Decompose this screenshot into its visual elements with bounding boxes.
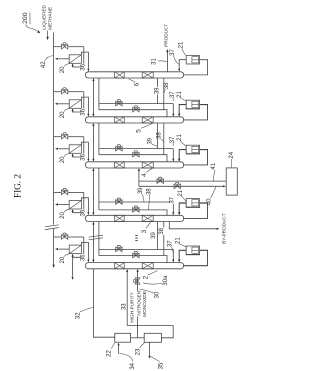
pump return line 37 into column, unit 1	[179, 60, 186, 69]
svg-text:30: 30	[154, 291, 160, 298]
svg-text:24: 24	[229, 151, 235, 158]
reflux line 36 into column top, unit 4	[81, 198, 88, 212]
svg-text:39: 39	[155, 87, 161, 94]
line 38	[163, 78, 165, 110]
svg-text:39: 39	[147, 137, 153, 144]
heat exchanger 20 (condenser) unit 1	[69, 55, 81, 64]
svg-text:36: 36	[80, 153, 86, 160]
line 39	[157, 123, 159, 149]
packing section	[115, 117, 125, 123]
svg-text:2: 2	[143, 275, 150, 279]
reflux line 36 into column top, unit 2	[81, 97, 88, 114]
methane vapour return line to 42, unit 4	[58, 204, 69, 206]
line 38	[163, 222, 165, 256]
upper bus line with valve	[99, 103, 173, 105]
pump 21 loop between columns	[179, 149, 186, 158]
svg-text:39: 39	[138, 187, 144, 194]
pump 21 loop between columns	[179, 250, 186, 259]
heat exchanger 20 (condenser) unit 4	[69, 201, 81, 210]
pump 21 loop between columns	[179, 203, 186, 212]
methane vapour return line to 42, unit 5	[58, 248, 69, 250]
lower bus line with valve	[99, 155, 167, 162]
svg-text:39: 39	[151, 232, 157, 239]
lower bus line with valve	[99, 110, 167, 117]
svg-text:LIQUEFIED: LIQUEFIED	[42, 4, 47, 29]
line 37 into lower column	[172, 149, 174, 161]
methane vapour return line to 42, unit 1	[58, 58, 69, 60]
label 21 gap4	[176, 237, 181, 244]
svg-text:20: 20	[60, 66, 66, 73]
svg-text:21: 21	[176, 237, 182, 244]
break mark on line 42	[45, 225, 59, 227]
lower bus line with valve	[99, 210, 167, 215]
connector between 22 and 23	[131, 337, 145, 339]
label 36 unit 1	[81, 64, 86, 71]
unit 2: methane branch line with valve	[54, 91, 62, 93]
svg-text:20: 20	[60, 256, 66, 263]
svg-text:6: 6	[134, 82, 141, 86]
label 37 gap1	[170, 91, 175, 98]
packing section	[115, 72, 125, 78]
svg-text:35: 35	[158, 362, 164, 369]
reflux line 36 into column top, unit 5	[81, 242, 88, 259]
label 3 (column)	[142, 230, 148, 234]
svg-text:20: 20	[60, 212, 66, 219]
line 37 into lower column	[172, 104, 174, 116]
svg-text:41: 41	[211, 162, 217, 169]
svg-text:36: 36	[80, 63, 86, 70]
vapour line between columns 4 and 3	[92, 169, 94, 215]
label 37 gap3	[170, 197, 175, 204]
svg-text:3: 3	[141, 229, 148, 233]
packing section	[142, 162, 153, 168]
svg-text:38: 38	[159, 227, 165, 234]
unit 1: methane branch line with valve	[54, 46, 62, 48]
unit 3: methane branch line with valve	[54, 136, 62, 138]
vapour line between columns 3 and 2	[92, 222, 94, 261]
svg-text:4: 4	[141, 173, 148, 177]
by-product line 40 with valve	[139, 185, 223, 187]
svg-text:37: 37	[170, 49, 176, 56]
feed inlet arrow	[47, 31, 49, 38]
vapour line between columns 5 and 4	[92, 124, 94, 161]
recycle line 30 with valve 30a	[137, 270, 139, 338]
distillation column 5 (vessel)	[85, 117, 184, 123]
distillation column 4 (vessel)	[85, 162, 184, 168]
liquid transfer line	[98, 78, 100, 110]
packing section	[115, 215, 125, 221]
svg-text:23: 23	[135, 348, 141, 355]
heat exchanger 20 (condenser) unit 3	[69, 145, 81, 154]
reflux pump 21 loop, unit 1	[183, 60, 208, 75]
unit 5: methane branch line with valve	[54, 236, 62, 238]
methane vapour return line to 42, unit 3	[58, 148, 69, 150]
label 21 gap3	[179, 190, 184, 197]
svg-text:38: 38	[157, 132, 163, 139]
product line 31	[166, 52, 168, 72]
distillation column 3 (vessel)	[85, 215, 184, 221]
unit 4: methane branch line with valve	[54, 191, 62, 193]
reflux pump 21 loop, unit 2	[183, 105, 208, 120]
svg-text:34: 34	[130, 362, 136, 369]
svg-text:22: 22	[107, 350, 113, 357]
label 37 gap2	[170, 136, 175, 143]
label 37 gap4	[168, 240, 173, 247]
liquid transfer line	[98, 123, 100, 155]
reflux pump 21 loop, unit 3	[183, 150, 208, 165]
svg-text:5: 5	[136, 129, 143, 133]
upper bus line with valve	[99, 201, 173, 203]
svg-text:38: 38	[147, 188, 153, 195]
svg-text:MONOXIDE: MONOXIDE	[142, 291, 147, 317]
label 36 unit 2	[81, 109, 86, 116]
svg-text:20: 20	[60, 111, 66, 118]
svg-text:32: 32	[75, 312, 81, 319]
line 32 to separator 22	[93, 269, 114, 337]
tank 24	[226, 168, 237, 195]
svg-text:37: 37	[168, 240, 174, 247]
svg-text:21: 21	[177, 134, 183, 141]
pump return line 37 into column, unit 3	[179, 150, 186, 159]
svg-text:FIG. 2: FIG. 2	[13, 174, 23, 198]
svg-text:38: 38	[164, 82, 170, 89]
svg-text:42: 42	[41, 61, 47, 68]
pump 21 loop between columns	[179, 104, 186, 113]
label 39 gap1	[155, 87, 160, 94]
liquid transfer line	[98, 222, 100, 256]
reflux line 36 into column top, unit 3	[81, 142, 88, 159]
svg-text:36: 36	[80, 209, 86, 216]
svg-text:33: 33	[122, 303, 128, 310]
label 36 unit 4	[81, 209, 86, 216]
svg-text:21: 21	[177, 91, 183, 98]
line 37 into lower column	[172, 202, 174, 214]
liquid transfer line	[98, 168, 100, 210]
label HIGH-PURITY NITROGEN MONOXIDE	[130, 290, 134, 323]
by-product outlet line	[169, 222, 216, 229]
line 39	[157, 222, 159, 250]
label 36 unit 3	[81, 154, 86, 161]
label 21 gap2	[178, 134, 183, 141]
line 33 riser with arrow	[126, 270, 128, 326]
svg-text:20: 20	[60, 156, 66, 163]
svg-text:37: 37	[170, 196, 176, 203]
upper bus line with valve	[99, 248, 173, 250]
lower bus line with valve	[99, 256, 167, 263]
reflux pump 21 loop, unit 4	[183, 203, 208, 218]
svg-text:PRODUCT: PRODUCT	[163, 24, 168, 47]
box 23	[144, 333, 161, 342]
outlet arrow 35	[149, 342, 151, 355]
by-product riser line	[138, 169, 140, 187]
ellipsis (omitted columns)	[135, 235, 137, 237]
methane vapour return line to 42, unit 2	[58, 103, 69, 105]
separator box 22	[115, 333, 131, 342]
svg-text:200: 200	[22, 12, 29, 24]
packing section	[142, 215, 153, 221]
svg-text:40: 40	[206, 198, 212, 205]
distillation column 6 (vessel)	[85, 72, 184, 78]
reflux pump 21 loop, unit 5	[183, 251, 208, 266]
heat exchanger 20 (condenser) unit 2	[69, 100, 81, 109]
svg-text:21: 21	[178, 189, 184, 196]
main methane line 42	[53, 33, 55, 225]
line 37 into lower column	[172, 249, 174, 261]
svg-text:NITROGEN: NITROGEN	[136, 291, 141, 316]
svg-text:37: 37	[170, 136, 176, 143]
heat exchanger 20 (condenser) unit 5	[69, 245, 81, 254]
label 39 gap4	[152, 232, 157, 239]
packing section	[142, 263, 153, 269]
upper bus line with valve	[99, 148, 173, 150]
label 21 gap1	[177, 91, 182, 98]
line 39	[157, 78, 159, 104]
packing section	[142, 117, 153, 123]
vapour line between columns 6 and 5	[92, 79, 94, 116]
svg-text:31: 31	[152, 58, 158, 65]
svg-text:30a: 30a	[163, 275, 169, 286]
by-product line 41 with valve	[139, 180, 226, 182]
pump return line 37 into column, unit 4	[179, 203, 186, 212]
svg-text:METHANE: METHANE	[48, 7, 53, 30]
inlet arrow 34	[118, 346, 120, 354]
reflux line 36 into column top, unit 1	[81, 52, 88, 69]
label 38 gap4	[160, 228, 165, 235]
packing section	[115, 263, 125, 269]
svg-text:37: 37	[170, 91, 176, 98]
distillation column 2 (vessel)	[85, 263, 184, 269]
svg-text:HIGH-PURITY: HIGH-PURITY	[130, 291, 135, 322]
methane outlet line, last unit	[72, 257, 74, 276]
line 38	[163, 123, 165, 155]
packing section	[115, 162, 125, 168]
svg-text:36: 36	[80, 108, 86, 115]
svg-text:21: 21	[178, 41, 184, 48]
svg-text:36: 36	[80, 254, 86, 261]
pump return line 37 into column, unit 2	[179, 105, 186, 114]
break mark on transfer lines	[89, 235, 103, 237]
packing section	[142, 72, 153, 78]
pump return line 37 into column, unit 5	[179, 251, 186, 260]
label 36 unit 5	[81, 254, 86, 261]
svg-text:BY-PRODUCT: BY-PRODUCT	[221, 213, 226, 244]
